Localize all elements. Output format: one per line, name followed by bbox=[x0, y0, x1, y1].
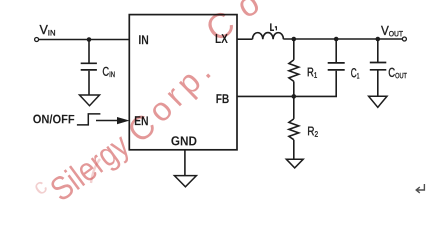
node junction dot COUT top bbox=[376, 37, 381, 42]
capacitor CIN vertical stubs bbox=[88, 40, 90, 96]
node junction dot R1 top bbox=[292, 37, 297, 42]
svg-text:o: o bbox=[231, 0, 266, 26]
node VIN terminal circle bbox=[35, 38, 39, 42]
wire EN arrow shaft bbox=[96, 120, 120, 122]
wire FB net bbox=[237, 71, 336, 97]
resistor R2 zigzag bbox=[289, 119, 299, 140]
wire GND pin bbox=[184, 150, 186, 176]
capacitor C1 stub bbox=[335, 39, 337, 63]
ground (below COUT) bbox=[369, 96, 387, 107]
node junction dot FB bbox=[292, 94, 297, 99]
svg-text:IN: IN bbox=[138, 32, 148, 47]
node VOUT terminal circle bbox=[402, 37, 406, 41]
wire inductor to VOUT terminal bbox=[283, 38, 402, 40]
capacitor COUT plates bbox=[370, 63, 387, 70]
capacitor C1 plates bbox=[328, 63, 345, 70]
resistor R2 stubs bbox=[293, 96, 295, 159]
signal step symbol at EN bbox=[77, 114, 101, 125]
ground (below R2) bbox=[286, 159, 303, 168]
node junction dot C1 top bbox=[334, 37, 339, 42]
wire LX to inductor bbox=[237, 38, 253, 40]
svg-text:VOUT: VOUT bbox=[381, 23, 403, 38]
wire VIN to IN pin bbox=[39, 39, 130, 41]
svg-text:COUT: COUT bbox=[388, 65, 407, 80]
capacitor CIN plates bbox=[81, 63, 97, 70]
watermark ghost stroke left of IC bbox=[91, 159, 100, 183]
inductor L1 bbox=[253, 33, 284, 40]
label L1 (drawn) bbox=[270, 23, 274, 30]
svg-text:ON/OFF: ON/OFF bbox=[33, 112, 75, 126]
svg-text:VIN: VIN bbox=[39, 22, 55, 38]
svg-text:C: C bbox=[199, 3, 241, 49]
svg-text:GND: GND bbox=[171, 133, 197, 148]
op-amp U1 (regulator IC body) bbox=[129, 15, 237, 150]
resistor R1 stubs bbox=[293, 39, 295, 96]
svg-text:R1: R1 bbox=[307, 65, 318, 79]
svg-text:Silergy: Silergy bbox=[43, 126, 136, 208]
svg-text:FB: FB bbox=[216, 91, 230, 106]
svg-text:R2: R2 bbox=[307, 124, 318, 138]
ground (below IC GND pin) bbox=[174, 176, 196, 187]
watermark "Silergy Corp. Co" (red stamp arc) bbox=[28, 0, 266, 208]
capacitor COUT stubs bbox=[377, 39, 379, 96]
arrowhead into EN pin bbox=[117, 117, 130, 124]
pilcrow return mark (document artifact) bbox=[416, 184, 424, 193]
svg-text:CIN: CIN bbox=[102, 65, 115, 79]
svg-text:C1: C1 bbox=[351, 65, 360, 80]
node junction dot CIN bbox=[87, 37, 92, 42]
resistor R1 zigzag bbox=[289, 60, 299, 82]
ground (below CIN) bbox=[80, 95, 100, 106]
